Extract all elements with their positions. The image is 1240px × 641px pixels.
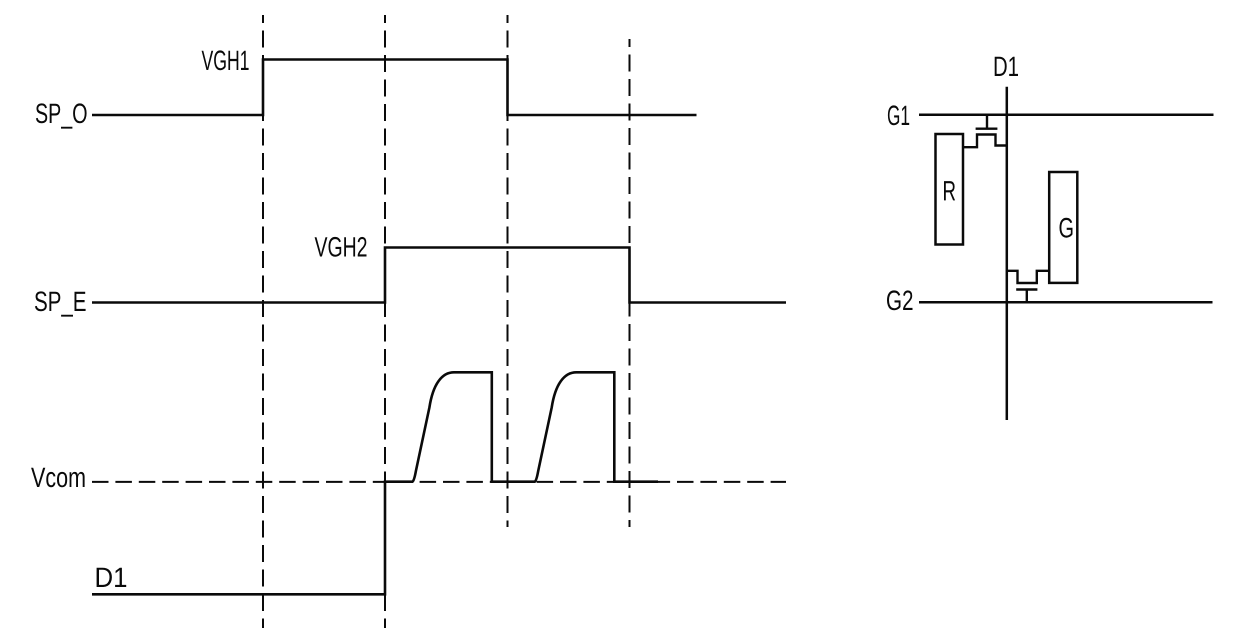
node D1 label (pixel schematic) [995,57,1018,76]
node SP_O label [36,103,87,128]
pixel electrode G [1049,172,1077,283]
transistor Q2 channel bridge [1007,271,1049,283]
transistor Q2 gate bar [1016,288,1037,290]
node G1 label [888,105,909,125]
wire D1 data waveform [92,372,658,594]
pixel electrode R [936,134,964,245]
node VGH2 label [315,237,367,257]
transistor Q1 channel bridge [963,135,1007,148]
dashed timing line t2 [384,15,386,628]
wire SP_E waveform [92,248,786,303]
label G [1060,218,1073,238]
dashed timing line t3 [507,15,509,527]
transistor Q1 gate stem [986,115,988,128]
dashed timing line t4 [629,39,631,527]
wire SP_O waveform [92,60,697,116]
wire D1 data line vertical [1006,87,1009,420]
node Vcom label [31,468,85,488]
wire G2 gate line [919,301,1213,304]
label R [944,181,955,200]
node VGH1 label [202,50,249,70]
wire G1 gate line [919,113,1214,116]
node D1 label (timing) [97,568,127,587]
node G2 label [887,290,913,310]
transistor Q2 gate stem [1026,290,1028,303]
transistor Q1 gate bar [976,127,998,129]
dashed timing line t1 [262,15,264,628]
node SP_E label [35,291,86,316]
wire Vcom dashed reference line [92,481,786,483]
